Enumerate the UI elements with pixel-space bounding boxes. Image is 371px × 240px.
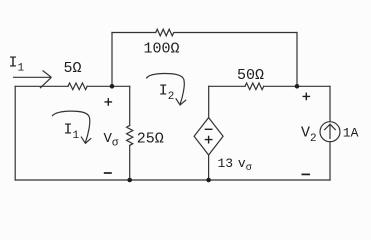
wire bottom rail xyxy=(15,179,330,181)
mesh arrow I2 xyxy=(146,73,184,104)
wire top branch right vertical xyxy=(296,33,298,87)
current source arrow xyxy=(325,124,336,138)
resistor 50ohm xyxy=(245,83,264,90)
junction node at top branch left xyxy=(110,84,115,89)
resistor 100ohm xyxy=(156,29,174,36)
wire mid rail right segment xyxy=(264,85,330,87)
junction node 25ohm branch bottom xyxy=(127,178,132,183)
svg-text:50Ω: 50Ω xyxy=(237,67,264,84)
svg-text:I1: I1 xyxy=(64,122,80,143)
wire mid rail left segment xyxy=(209,85,245,87)
wire right rail top xyxy=(329,86,331,121)
svg-text:I2: I2 xyxy=(159,83,175,104)
svg-text:I1: I1 xyxy=(9,55,25,75)
label minus inside diamond xyxy=(205,128,213,130)
current source circle 1A xyxy=(320,122,340,142)
wire left rail xyxy=(14,86,16,180)
wire dependent-source branch bottom xyxy=(208,155,210,180)
svg-text:25Ω: 25Ω xyxy=(137,131,164,148)
wire dependent-source branch top xyxy=(208,86,210,117)
wire left-loop top right segment xyxy=(87,85,130,87)
svg-text:100Ω: 100Ω xyxy=(144,40,180,57)
junction node dependent source bottom xyxy=(206,178,211,183)
dependent source diamond 13vs xyxy=(194,118,223,155)
wire top branch right horizontal xyxy=(175,32,297,34)
wire 25ohm branch top xyxy=(129,86,131,125)
label plus left loop xyxy=(105,98,113,106)
wire right rail bottom xyxy=(329,142,331,180)
label plus inside diamond xyxy=(205,136,213,144)
mesh arrow I1 xyxy=(52,111,90,142)
current arrow I1 on wire xyxy=(13,71,51,89)
wire left-loop top left segment xyxy=(15,85,68,87)
svg-text:Vσ: Vσ xyxy=(104,131,119,150)
svg-text:5Ω: 5Ω xyxy=(64,60,82,77)
wire top branch left vertical xyxy=(111,33,113,87)
label plus right loop xyxy=(303,93,311,101)
label minus left loop xyxy=(104,172,112,174)
resistor 25ohm xyxy=(127,126,133,146)
svg-text:V2: V2 xyxy=(301,124,317,145)
junction node at top branch right xyxy=(295,84,300,89)
wire 25ohm branch bottom xyxy=(129,145,131,180)
svg-text:13 vσ: 13 vσ xyxy=(218,156,252,174)
svg-text:1A: 1A xyxy=(343,125,359,140)
label minus right loop xyxy=(302,173,311,175)
wire top branch left horizontal xyxy=(112,32,156,34)
resistor 5ohm xyxy=(68,83,87,90)
